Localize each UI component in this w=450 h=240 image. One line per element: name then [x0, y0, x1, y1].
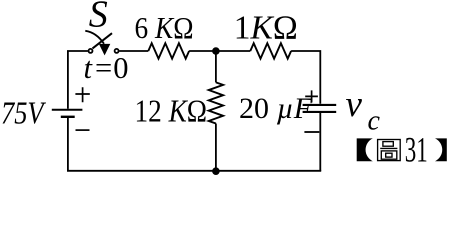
capacitor plus sign: [305, 90, 318, 102]
battery minus terminal: [76, 129, 90, 131]
svg-text:t=0: t=0: [84, 51, 129, 85]
battery plus terminal: [75, 87, 89, 102]
svg-text:vc: vc: [346, 84, 381, 137]
wire top-left corner down to battery: [68, 51, 88, 109]
svg-text:20 µF: 20 µF: [239, 92, 313, 125]
wire right side below capacitor to bottom-right corner: [319, 113, 321, 171]
wire bottom: [67, 170, 321, 172]
junction dot top: [212, 47, 220, 55]
resistor 1K: [250, 43, 291, 58]
switch S: [85, 31, 118, 56]
wire switch to 6K resistor: [119, 50, 148, 52]
resistor 6K: [148, 43, 189, 58]
wire left side below battery to bottom-left corner: [67, 118, 69, 171]
resistor 12K: [209, 82, 223, 123]
figure label [圖 31]: [357, 129, 447, 169]
wire top junction down to 12K resistor: [215, 51, 217, 82]
battery 75V: [52, 110, 83, 117]
svg-text:6 KΩ: 6 KΩ: [135, 10, 194, 45]
svg-text:75V: 75V: [1, 95, 46, 131]
svg-text:12 KΩ: 12 KΩ: [135, 93, 208, 129]
wire top right: 1K resistor to top-right corner down to capacitor: [291, 51, 320, 104]
svg-text:31: 31: [405, 129, 428, 169]
svg-text:1KΩ: 1KΩ: [234, 9, 298, 46]
wire 12K resistor to bottom junction: [215, 124, 217, 171]
svg-text:S: S: [89, 0, 108, 36]
wire between top junction and 1K resistor: [189, 50, 250, 52]
junction dot bottom: [212, 167, 220, 175]
capacitor minus sign: [304, 131, 319, 133]
capacitor C 20uF: [303, 105, 337, 112]
